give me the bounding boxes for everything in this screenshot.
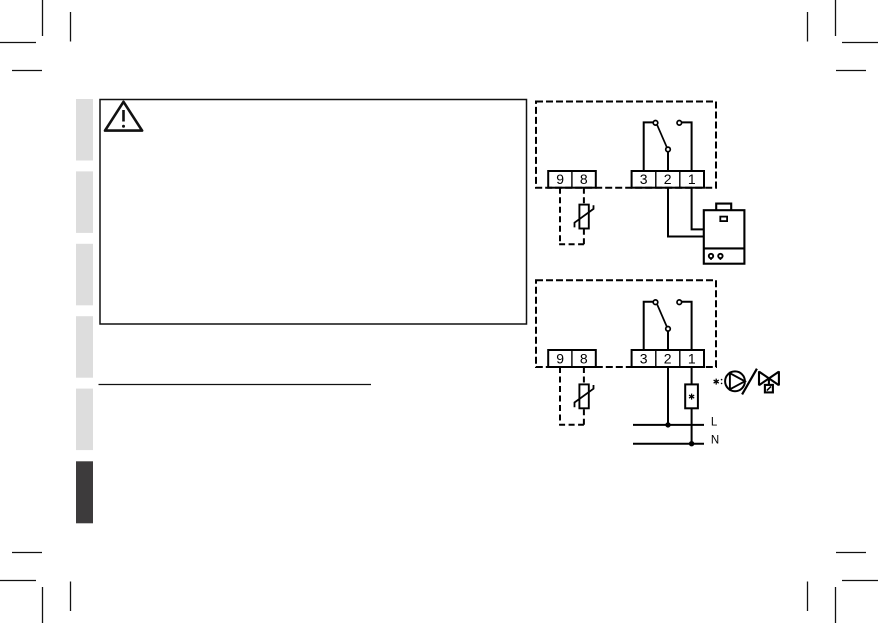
svg-text:2: 2	[664, 350, 672, 366]
svg-text:9: 9	[556, 350, 564, 366]
svg-text:2: 2	[664, 171, 672, 187]
svg-text:L: L	[711, 417, 718, 429]
svg-text:1: 1	[688, 171, 696, 187]
svg-text:9: 9	[556, 171, 564, 187]
svg-text:3: 3	[640, 171, 648, 187]
svg-text:8: 8	[580, 171, 588, 187]
svg-text:3: 3	[640, 350, 648, 366]
svg-text:1: 1	[688, 350, 696, 366]
svg-text:8: 8	[580, 350, 588, 366]
svg-text:N: N	[711, 434, 719, 446]
